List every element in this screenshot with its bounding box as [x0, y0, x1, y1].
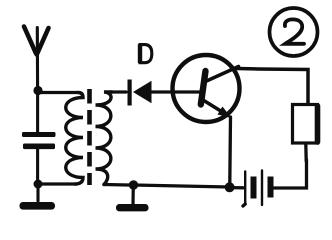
antenna [24, 27, 49, 91]
figure number circle [270, 8, 318, 56]
wire battery to resistor bottom [274, 160, 307, 188]
node B (capacitor bottom junction) [34, 180, 43, 189]
wire resistor bottom lead [304, 144, 308, 162]
diode D triangle [133, 81, 152, 103]
wire transformer secondary bottom to node C [104, 183, 129, 187]
ground (left) [20, 184, 56, 210]
wire node A to transformer primary top [38, 91, 78, 94]
battery B1 cell 1 long plate [243, 172, 245, 207]
transistor Q1 collector [207, 67, 239, 82]
resistor R1 (earphone load) [293, 105, 318, 144]
diode D cathode bar [128, 80, 132, 106]
wire node D to battery [230, 186, 243, 189]
battery B1 cell 2 long plate [261, 171, 263, 206]
node D (emitter / battery junction) [225, 182, 235, 192]
wire secondary top to diode [110, 90, 126, 93]
node A (antenna / tank junction) [33, 86, 42, 95]
wire emitter down to node D [228, 117, 232, 183]
transistor Q1 circle [173, 55, 240, 122]
battery B1 cell 1 short plate [251, 177, 257, 199]
transistor Q1 emitter with arrow [203, 100, 231, 118]
label D [139, 44, 152, 63]
node C (secondary / ground junction) [129, 180, 138, 189]
ground (middle) [116, 185, 149, 211]
figure number 2 [285, 19, 304, 43]
wire node C to node D (emitter return rail) [134, 185, 230, 187]
wire node B to transformer primary bottom [38, 182, 76, 185]
battery B1 cell 2 short plate [268, 177, 274, 198]
capacitor C1 [22, 92, 56, 182]
wire collector to resistor (top rail) [237, 69, 308, 105]
transistor Q1 base bar [201, 71, 206, 105]
transformer T1 primary winding [66, 93, 83, 185]
transformer T1 core [87, 89, 92, 185]
transformer T1 secondary winding [96, 92, 113, 185]
wire diode to transistor base [150, 90, 201, 93]
